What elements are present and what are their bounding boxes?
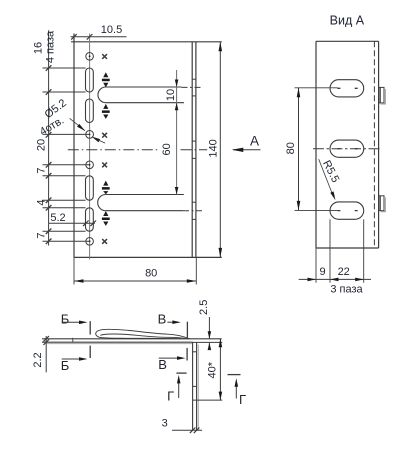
view A middle slot center line [313,148,382,150]
dim 10.5: slash ticks [71,34,92,40]
extension line: slot4 top [43,207,86,209]
right edge tab tick 1a [192,78,196,80]
dim 10.5: dimension line [71,36,127,38]
extension line: slot1 top [43,67,86,69]
svg-text:4: 4 [35,199,47,205]
svg-text:7: 7 [35,232,47,238]
svg-text:10: 10 [165,89,177,101]
horizontal slot A: top edge [106,86,182,88]
view A tab 2 inner line [379,196,381,211]
svg-text:Б: Б [61,358,70,373]
svg-text:Г: Г [239,392,246,407]
dim 5.2: slash ticks [83,221,96,227]
profile flange: left edge [192,342,194,430]
profile plate: bottom surface line [42,341,193,343]
dim 140: top arrow [219,42,223,52]
plate bend line (right, inner) [191,42,193,258]
view A oval slot 3 [330,202,364,219]
right edge tab tick 2a [192,140,196,142]
dim 9/22: dimension line [299,278,371,280]
hole cross mark 4 [102,239,107,244]
svg-text:А: А [250,133,259,148]
dim 80: extension line bottom [295,209,338,211]
horizontal slot C: left arc [98,195,106,211]
section mark V lower: arrow [159,357,178,359]
dim 5.2: shelf line [49,222,95,224]
svg-text:2.2: 2.2 [32,352,44,367]
view A sight arrow line [233,149,261,151]
view A oval slot 1 [330,80,364,97]
horizontal center line A-A (left part) [68,149,159,151]
view A outline: left edge [315,41,317,248]
view A outline: bottom edge [316,247,379,249]
svg-text:7: 7 [35,167,47,173]
vertical slot 3 [86,176,94,200]
hole 3 [86,161,94,169]
dim 22: left arrow [330,278,339,282]
left chain dimension line [48,30,50,245]
extension line: hole4 center [43,240,90,242]
extension line: slot3 bottom [43,199,86,201]
profile flange: right edge [196,342,198,430]
svg-text:80: 80 [285,142,297,154]
svg-text:2.5: 2.5 [198,300,210,315]
spring clip tongue: root slot edge [101,338,181,339]
left chain slash ticks [46,65,52,244]
profile plate: clip root tick [72,338,74,343]
section mark B lower: cut line [89,346,91,358]
section mark B lower: arrow [62,358,80,360]
edge-press symbol above slot C [102,181,110,195]
svg-text:22: 22 [338,266,350,278]
vertical slot 4 [86,208,94,231]
svg-text:3 паза: 3 паза [330,284,363,296]
dim 140: dimension line [219,42,221,258]
vertical slot 1 [86,68,94,92]
dim 80: dimension line [298,88,300,211]
slot A tab center dash-dot [182,86,203,88]
dim 9/22: extension from oval right [363,219,365,282]
edge-press symbol above slot A [102,72,110,87]
section mark V lower: cut line [186,348,188,361]
dim 2.2: slash ticks [43,336,49,345]
svg-text:Вид А: Вид А [330,14,365,28]
section mark V upper: arrow [167,321,173,323]
extension line: slot4 bottom [43,230,86,232]
profile flange: slot tick 1 [193,351,197,353]
dim 2.5: dimension line lower part [208,343,210,349]
svg-text:В: В [158,311,167,326]
dim 9: outside arrow [308,278,317,282]
view A outline: top edge [316,40,379,42]
oval slot 3 center marks [337,210,357,212]
dim 80 (main view): right arrow [187,279,197,283]
svg-text:В: В [158,357,167,372]
plate outline: bottom edge (with 140-dim extension) [74,256,222,258]
vertical center line through holes [89,34,91,260]
hole 4 [86,238,94,246]
hole cross mark 2 [102,133,107,138]
slot C tab center dash-dot [183,210,203,212]
oval slot 1 center marks [337,87,357,89]
profile flange: slot tick 2 [193,385,197,387]
view A oval slot 2 [330,140,364,157]
view A outline: right edge [378,41,380,248]
extension line: hole2 center [43,133,90,135]
spring clip tongue: inner outline [100,334,188,339]
right edge tab tick 3a [192,201,196,203]
dim 80 (main view): left extension [73,257,75,284]
section mark V upper: cut line [186,322,188,338]
svg-text:80: 80 [145,268,157,280]
dim 3: dimension line [172,429,202,431]
plate outline: top edge (with 140-dim extension) [71,41,222,43]
section mark G right: cut bar [228,374,241,376]
profile plate: shadow line [47,343,193,345]
leader arrowhead at hole 2 (lower-right) [91,137,100,143]
edge-press symbol below slot A [102,104,110,119]
plate outline: left edge [73,34,75,258]
dim 80: bottom arrow [297,201,301,211]
right edge tab tick 3b [192,218,196,220]
svg-text:10.5: 10.5 [101,24,122,36]
section mark B upper: arrow [62,321,80,323]
dim 3: slash ticks [190,428,200,434]
dim 9/22: extension from oval left [329,219,331,282]
leader line to hole 2 [70,118,85,130]
dim 40*: bottom arrow [219,392,223,401]
svg-text:20: 20 [35,139,47,151]
svg-text:4 паза: 4 паза [45,30,57,63]
horizontal slot C: bottom edge [106,210,183,212]
view A tab 2 shadow [384,197,386,212]
dim 80: extension line top [295,87,338,89]
svg-text:5.2: 5.2 [50,212,65,224]
profile flange: bottom of body + 40 extension [193,399,223,401]
svg-text:3: 3 [162,418,168,430]
dim 140: bottom arrow [219,248,223,258]
extension line: slot3 top [43,175,86,177]
vertical slot 2 [86,99,94,123]
dim 10/60 shared arrow (up) at slot A bottom [175,103,179,111]
horizontal slot A: bottom edge [106,102,184,104]
svg-text:60: 60 [161,143,173,155]
dim 22: right arrow [355,278,364,282]
svg-text:16: 16 [33,42,45,54]
dim 80 (main view): right extension [195,257,197,284]
svg-text:Г: Г [167,389,174,404]
profile plate: top surface line (with 2.5/40 extension) [42,338,222,340]
horizontal center line A-A (right part) [181,149,208,151]
spring clip tongue: outer outline [96,329,190,339]
profile flange: top edge + 2.5 extension [193,341,223,343]
dim R5.5: leader arrowhead [330,191,335,200]
dim 40*: top arrow [219,339,223,348]
svg-text:140: 140 [207,139,219,157]
dim 80 (main view): left arrow [74,279,84,283]
hole 2 [86,131,94,139]
plate outline: right outer edge [195,42,197,258]
dim 80: top arrow [297,88,301,98]
right edge tab tick 2b [192,157,196,159]
horizontal slot C: top edge [106,194,184,196]
hole 1 [86,53,94,61]
leader tail line lower-right [98,140,106,144]
hole cross mark 3 [102,163,107,168]
dim 10: upper arrow (down) [175,80,179,88]
hole cross mark 1 [102,54,107,59]
oval slot 2 center marks [337,148,357,150]
section mark G left: arrow [178,381,180,398]
leader arrowhead at hole 2 (upper-left) [77,124,85,131]
profile flange: shadow line [197,345,199,431]
extension line: slot1 bottom [43,91,86,93]
dim 40*: dimension line [219,339,221,400]
right edge tab tick 1b [192,95,196,97]
view A tab 1 outline [379,87,384,103]
dim 80 (main view): dimension line [74,280,196,282]
dim 2.5: down arrow [208,331,212,339]
svg-text:9: 9 [320,266,326,278]
edge-press symbol below slot C [102,211,110,226]
section mark G left: cut bar [176,372,186,374]
svg-text:40*: 40* [207,361,219,378]
view A bend line (dashed) [373,41,375,248]
view A tab 1 shadow [384,89,386,104]
dim 10/60: vertical dimension line [176,70,178,195]
view A sight arrowhead [232,148,244,152]
horizontal slot A: left arc [98,87,106,103]
dim 9/22: extension from view A left edge [315,248,317,283]
section mark B upper: cut line [89,321,91,334]
dim R5.5: leader line [319,159,333,195]
dim 60: lower arrow (down) at slot C top [175,187,179,195]
svg-text:Б: Б [61,311,70,326]
section mark G right: arrow [235,384,237,399]
extension line: hole3 center [43,164,90,166]
dim 2.5: up arrow [208,343,212,351]
dim 2.2: dimension line [45,336,47,372]
view A tab 1 inner line [379,87,381,103]
view A tab 2 outline [379,196,384,211]
dim 2.5: dimension line upper part [208,317,210,339]
